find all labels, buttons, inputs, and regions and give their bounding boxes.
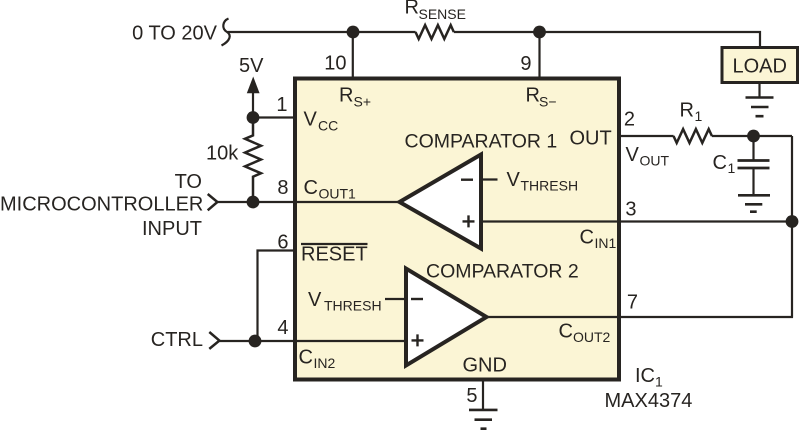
svg-text:LOAD: LOAD bbox=[733, 56, 787, 78]
svg-text:TO: TO bbox=[175, 171, 202, 193]
svg-text:COMPARATOR 2: COMPARATOR 2 bbox=[426, 261, 579, 283]
svg-text:S+: S+ bbox=[354, 94, 372, 110]
svg-text:THRESH: THRESH bbox=[521, 178, 579, 194]
svg-text:MICROCONTROLLER: MICROCONTROLLER bbox=[0, 194, 203, 216]
svg-text:R: R bbox=[526, 85, 540, 107]
svg-text:1: 1 bbox=[728, 160, 736, 176]
svg-text:C: C bbox=[299, 347, 313, 369]
svg-text:5: 5 bbox=[466, 385, 477, 407]
svg-text:R: R bbox=[405, 0, 419, 19]
svg-text:IN2: IN2 bbox=[314, 355, 336, 371]
svg-text:10k: 10k bbox=[206, 143, 239, 165]
svg-text:OUT2: OUT2 bbox=[573, 329, 611, 345]
svg-text:R: R bbox=[680, 100, 694, 122]
svg-text:4: 4 bbox=[277, 317, 288, 339]
svg-text:IN1: IN1 bbox=[595, 235, 617, 251]
svg-text:1: 1 bbox=[695, 108, 703, 124]
svg-text:C: C bbox=[559, 321, 573, 343]
svg-text:C: C bbox=[304, 177, 318, 199]
svg-text:5V: 5V bbox=[239, 55, 264, 77]
svg-text:6: 6 bbox=[277, 232, 288, 254]
svg-text:CC: CC bbox=[318, 118, 338, 134]
svg-text:OUT: OUT bbox=[640, 153, 670, 169]
svg-text:OUT1: OUT1 bbox=[319, 186, 357, 202]
svg-text:SENSE: SENSE bbox=[419, 6, 466, 22]
svg-text:IC: IC bbox=[635, 365, 655, 387]
svg-text:OUT: OUT bbox=[570, 128, 612, 150]
svg-text:CTRL: CTRL bbox=[151, 329, 203, 351]
svg-text:9: 9 bbox=[520, 53, 531, 75]
svg-text:V: V bbox=[304, 109, 318, 131]
svg-text:3: 3 bbox=[625, 199, 636, 221]
svg-text:RESET: RESET bbox=[301, 244, 368, 266]
svg-text:V: V bbox=[626, 144, 640, 166]
svg-text:COMPARATOR 1: COMPARATOR 1 bbox=[405, 131, 558, 153]
svg-text:C: C bbox=[713, 152, 727, 174]
svg-text:MAX4374: MAX4374 bbox=[605, 390, 693, 412]
svg-text:0 TO 20V: 0 TO 20V bbox=[132, 23, 218, 45]
svg-text:V: V bbox=[308, 289, 322, 311]
svg-text:7: 7 bbox=[627, 292, 638, 314]
svg-text:V: V bbox=[507, 169, 521, 191]
svg-text:1: 1 bbox=[655, 374, 663, 390]
svg-text:THRESH: THRESH bbox=[324, 298, 382, 314]
svg-text:8: 8 bbox=[277, 177, 288, 199]
svg-text:1: 1 bbox=[276, 94, 287, 116]
svg-text:R: R bbox=[339, 85, 353, 107]
svg-text:2: 2 bbox=[624, 108, 635, 130]
svg-text:10: 10 bbox=[324, 53, 346, 75]
svg-text:C: C bbox=[580, 227, 594, 249]
svg-text:INPUT: INPUT bbox=[142, 218, 202, 240]
svg-text:GND: GND bbox=[463, 355, 507, 377]
svg-text:S−: S− bbox=[539, 94, 557, 110]
